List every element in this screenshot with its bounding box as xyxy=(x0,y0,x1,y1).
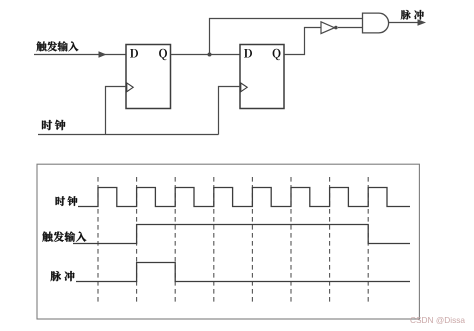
label 脉冲 waveform row xyxy=(51,271,75,281)
dashed gridlines at clock edges xyxy=(98,177,368,303)
clock edge triangle U2 xyxy=(241,83,247,92)
label 时钟 waveform row xyxy=(56,196,78,206)
junction node between U1.Q and U2.D xyxy=(208,53,212,57)
wire clock to U1 clk xyxy=(106,87,127,135)
label 时钟 (clock input) xyxy=(42,120,65,130)
label Q pin U2 xyxy=(273,49,281,60)
clock edge triangle U1 xyxy=(127,83,133,92)
label 触发输入 waveform row xyxy=(42,232,86,242)
wire U2.Q to inverter input xyxy=(284,28,321,55)
D flip-flop U1 xyxy=(126,45,171,109)
D flip-flop U2 xyxy=(240,45,284,109)
waveform clock xyxy=(78,188,410,207)
wire U1.Q to U2.D xyxy=(171,54,241,56)
wire trigger input to U1.D with arrowhead xyxy=(34,54,126,56)
svg-text:CSDN @Dissa: CSDN @Dissa xyxy=(410,315,465,325)
wire inverter output to AND gate bottom input xyxy=(338,27,363,29)
timing diagram border box xyxy=(37,164,419,319)
waveform trigger input xyxy=(73,225,410,244)
label 脉冲 (pulse output) xyxy=(401,10,424,20)
wire junction up and right to AND gate top input xyxy=(210,19,363,55)
label 触发输入 (trigger input) xyxy=(37,41,79,51)
wire AND output with arrowhead (pulse output) xyxy=(389,22,419,24)
waveform pulse xyxy=(76,263,410,282)
inverter U3 xyxy=(321,22,335,34)
wire clock to U2 clk xyxy=(219,87,241,135)
label D pin U1 xyxy=(130,49,138,58)
label D pin U2 xyxy=(244,49,252,58)
wire clock horizontal bus xyxy=(38,134,219,136)
label Q pin U1 xyxy=(159,49,167,60)
AND gate U4 xyxy=(363,13,389,33)
